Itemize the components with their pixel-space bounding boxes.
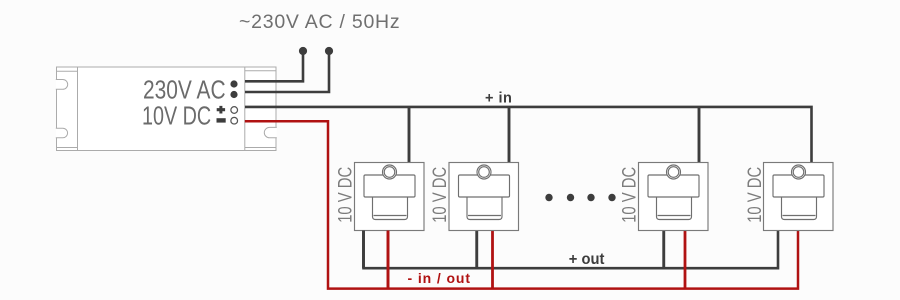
- PSU right tab bottom lip: [245, 147, 276, 149]
- PSU plus polarity mark: [217, 106, 225, 114]
- PSU right mounting slot: [264, 127, 276, 137]
- lamp 2 housing: [449, 163, 519, 231]
- svg-text:- in / out: - in / out: [408, 270, 471, 286]
- svg-text:10 V DC: 10 V DC: [744, 167, 765, 223]
- lamp 3 (10 V DC fixture): [639, 163, 709, 231]
- wire +in drop to lamp 2: [508, 107, 511, 163]
- wire +out riser lamp 2: [475, 231, 478, 269]
- lamp 1 lens: [373, 197, 408, 220]
- PSU DC terminal circle plus: [231, 107, 238, 114]
- PSU left mounting slot lower: [56, 128, 68, 138]
- lamp 2 (10 V DC fixture): [449, 163, 519, 231]
- wire +in drop to lamp 1: [408, 107, 411, 163]
- lamp 3 lens: [657, 197, 692, 220]
- PSU left tab top lip: [57, 70, 78, 72]
- lamp 4 sensor head: [773, 175, 824, 197]
- PSU left mounting slot upper: [56, 80, 68, 90]
- lamp 1 (10 V DC fixture): [355, 163, 425, 231]
- wire +out bus with risers at lamp 1 and lamp 4: [364, 231, 779, 269]
- svg-text:+ in: + in: [485, 91, 512, 107]
- PSU AC terminal dot 2: [230, 91, 237, 98]
- ellipsis dots (more lamps): [545, 194, 615, 201]
- lamp 2 sensor head: [459, 175, 510, 197]
- lamp 1 dome: [383, 165, 397, 179]
- wire red riser lamp 3: [684, 231, 687, 289]
- wire lamp 1 bottom gray stub: [362, 231, 365, 269]
- svg-text:10 V DC: 10 V DC: [619, 167, 640, 223]
- wire lamp 1 bottom red stub: [387, 231, 390, 289]
- wire +in drop to lamp 3: [698, 107, 701, 163]
- PSU minus polarity mark: [217, 118, 226, 122]
- lamp 1 sensor head: [364, 175, 415, 197]
- wire red riser lamp 2: [491, 231, 494, 289]
- wire +out riser lamp 3: [662, 231, 665, 269]
- lamp 4 dome: [792, 165, 806, 179]
- lamp 1 housing: [355, 163, 425, 231]
- lamp 3 dome: [667, 165, 681, 179]
- PSU left tab bottom lip: [57, 147, 78, 149]
- wire -in/out red bus: feed from PSU minus, down, along bottom, riser at lamp 4: [245, 121, 798, 288]
- svg-text:10 V DC: 10 V DC: [335, 167, 356, 223]
- lamp 3 sensor head: [648, 175, 699, 197]
- svg-text:10V DC: 10V DC: [142, 101, 211, 130]
- svg-text:~230V AC / 50Hz: ~230V AC / 50Hz: [239, 11, 400, 33]
- AC supply terminal dot 1: [299, 47, 307, 55]
- svg-text:10 V DC: 10 V DC: [429, 167, 450, 223]
- power supply PSU outer body: [57, 67, 277, 151]
- lamp 4 housing: [764, 163, 834, 231]
- lamp 2 dome: [477, 165, 491, 179]
- svg-text:+ out: + out: [569, 250, 605, 267]
- wire AC line 1: [245, 51, 303, 81]
- PSU left tab divider: [77, 67, 79, 151]
- wire +in bus with drop to lamp 4: [245, 107, 812, 163]
- PSU AC terminal dot 1: [230, 80, 237, 87]
- PSU DC terminal circle minus: [231, 117, 238, 124]
- lamp 4 lens: [782, 197, 817, 220]
- lamp 4 (10 V DC fixture): [764, 163, 834, 231]
- lamp 2 lens: [467, 197, 502, 220]
- wire AC line 2: [245, 51, 329, 92]
- lamp 3 housing: [639, 163, 709, 231]
- PSU right tab top lip: [245, 70, 276, 72]
- PSU right tab divider: [244, 67, 246, 151]
- AC supply terminal dot 2: [325, 47, 333, 55]
- wire red riser lamp 1: [387, 231, 390, 289]
